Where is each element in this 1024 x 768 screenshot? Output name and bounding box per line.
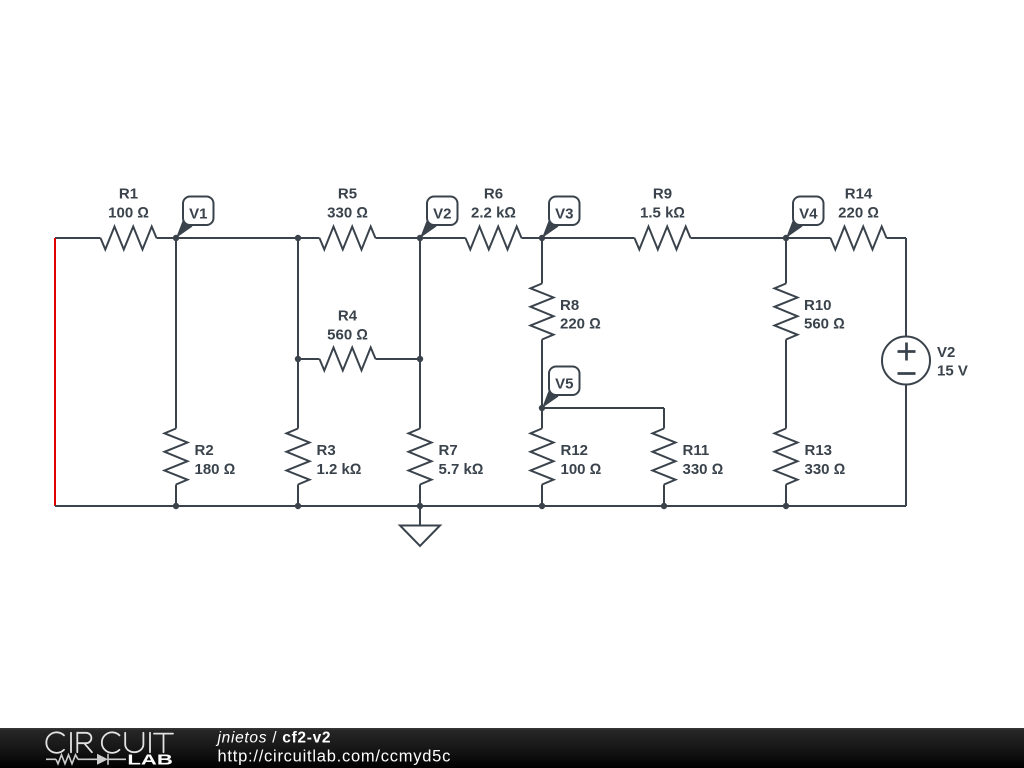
svg-text:R1: R1 — [119, 186, 138, 203]
resistor R4 — [320, 348, 376, 371]
label R1 value — [108, 186, 149, 222]
junction top rail R3 column — [295, 235, 301, 241]
wire right rail to source — [905, 238, 907, 506]
footer url — [218, 748, 452, 766]
svg-text:LAB: LAB — [127, 753, 172, 768]
svg-text:5.7 kΩ: 5.7 kΩ — [439, 461, 484, 478]
svg-text:V2: V2 — [937, 344, 955, 361]
svg-text:1.2 kΩ: 1.2 kΩ — [317, 461, 362, 478]
junction R4 left — [295, 356, 301, 362]
node V1 flag — [176, 197, 214, 239]
wire column V4/R10/R13 — [785, 238, 787, 506]
resistor R11 — [653, 429, 676, 485]
svg-text:R7: R7 — [439, 442, 458, 459]
node V1 junction — [173, 235, 179, 241]
svg-text:220 Ω: 220 Ω — [838, 205, 879, 222]
wire bottom rail — [55, 505, 906, 507]
label R10 value — [804, 297, 845, 333]
junction bottom rail R11 — [661, 503, 667, 509]
resistor R12 — [531, 429, 554, 485]
wire top rail segments — [55, 237, 906, 239]
svg-text:R9: R9 — [653, 186, 672, 203]
svg-text:180 Ω: 180 Ω — [195, 461, 236, 478]
wire column V2/R7 — [419, 238, 421, 506]
resistor R1 — [101, 227, 157, 250]
svg-text:2.2 kΩ: 2.2 kΩ — [471, 205, 516, 222]
svg-text:100 Ω: 100 Ω — [108, 205, 149, 222]
svg-text:jnietos / cf2-v2: jnietos / cf2-v2 — [216, 730, 332, 747]
wire red highlighted left wire — [54, 238, 56, 506]
svg-text:560 Ω: 560 Ω — [804, 316, 845, 333]
resistor R14 — [831, 227, 887, 250]
svg-text:R8: R8 — [560, 297, 579, 314]
label R6 value — [471, 186, 516, 222]
label R5 value — [327, 186, 368, 222]
node V2 junction — [417, 235, 423, 241]
junction bottom rail R3 — [295, 503, 301, 509]
wire column R11 — [663, 408, 665, 506]
svg-text:V2: V2 — [433, 206, 451, 223]
svg-text:R4: R4 — [338, 308, 358, 325]
resistor R9 — [635, 227, 691, 250]
svg-text:330 Ω: 330 Ω — [805, 461, 846, 478]
node V2 flag — [420, 197, 458, 239]
label R3 value — [317, 442, 362, 478]
label R2 value — [195, 442, 236, 478]
junction bottom rail R7 ground — [417, 503, 423, 509]
label R7 value — [439, 442, 484, 478]
svg-text:R11: R11 — [683, 442, 710, 459]
logo LAB text — [127, 753, 172, 768]
junction bottom rail R12 — [539, 503, 545, 509]
wire V5 row — [542, 407, 664, 409]
svg-text:R2: R2 — [195, 442, 214, 459]
svg-text:V3: V3 — [555, 206, 573, 223]
svg-text:100 Ω: 100 Ω — [561, 461, 602, 478]
label R9 value — [640, 186, 685, 222]
svg-text:330 Ω: 330 Ω — [327, 205, 368, 222]
label R13 value — [805, 442, 846, 478]
svg-text:220 Ω: 220 Ω — [560, 316, 601, 333]
node V3 flag — [542, 197, 580, 239]
svg-text:15 V: 15 V — [937, 363, 968, 380]
svg-text:http://circuitlab.com/ccmyd5c: http://circuitlab.com/ccmyd5c — [218, 748, 452, 766]
svg-text:R13: R13 — [805, 442, 833, 459]
resistor R6 — [466, 227, 522, 250]
svg-text:V4: V4 — [799, 206, 818, 223]
svg-text:330 Ω: 330 Ω — [683, 461, 724, 478]
node V3 junction — [539, 235, 545, 241]
node V5 flag — [542, 367, 580, 409]
logo CIRCUIT LAB — [46, 732, 173, 753]
voltage source V2 — [882, 337, 930, 385]
label R8 value — [560, 297, 601, 333]
node V5 junction — [539, 405, 545, 411]
junction bottom rail R13 — [783, 503, 789, 509]
resistor R2 — [165, 429, 188, 485]
svg-text:R5: R5 — [338, 186, 357, 203]
junction R4 right — [417, 356, 423, 362]
svg-text:V1: V1 — [189, 206, 207, 223]
resistor R5 — [320, 227, 376, 250]
label R14 value — [838, 186, 879, 222]
resistor R10 — [775, 284, 798, 340]
svg-text:R14: R14 — [845, 186, 873, 203]
label R4 value — [327, 308, 368, 344]
svg-text:R6: R6 — [484, 186, 503, 203]
label V2 source value — [937, 344, 968, 380]
svg-text:560 Ω: 560 Ω — [327, 327, 368, 344]
ground — [400, 506, 440, 546]
footer title jnietos / cf2-v2 — [216, 730, 332, 747]
svg-text:R3: R3 — [317, 442, 336, 459]
logo doodle wire with resistor and diode — [46, 754, 126, 765]
label R11 value — [683, 442, 724, 478]
wire R4 row — [298, 358, 420, 360]
svg-text:R10: R10 — [804, 297, 832, 314]
wire column V1/R2 — [175, 238, 177, 506]
footer bar — [0, 728, 1024, 768]
resistor R3 — [287, 429, 310, 485]
label R12 value — [561, 442, 602, 478]
node V4 junction — [783, 235, 789, 241]
svg-text:V5: V5 — [555, 376, 573, 393]
wire column V3/R8/R12 — [541, 238, 543, 506]
resistor R8 — [531, 284, 554, 340]
resistor R13 — [775, 429, 798, 485]
junction bottom rail R2 — [173, 503, 179, 509]
node V4 flag — [786, 197, 824, 239]
resistor R7 — [409, 429, 432, 485]
svg-text:1.5 kΩ: 1.5 kΩ — [640, 205, 685, 222]
wire column R3 — [297, 238, 299, 506]
svg-text:R12: R12 — [561, 442, 589, 459]
